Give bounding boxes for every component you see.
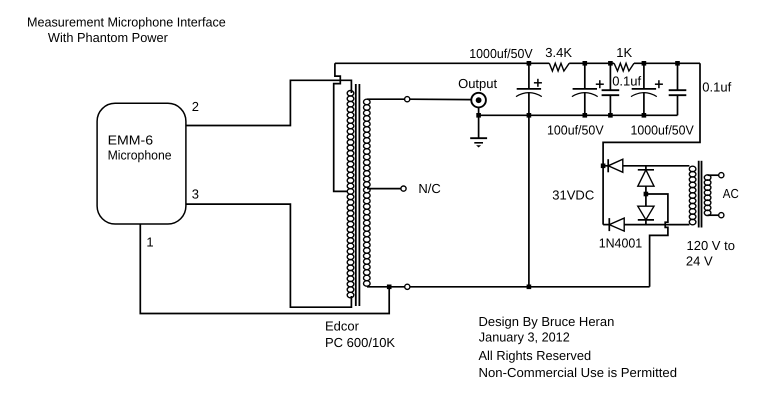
pin 3 label xyxy=(192,187,199,202)
svg-text:3.4K: 3.4K xyxy=(545,45,572,60)
terminal AC top xyxy=(719,173,724,178)
junction C1 bottom xyxy=(527,113,532,118)
diode D4 xyxy=(603,218,624,231)
wire AC primary bottom xyxy=(708,214,719,216)
microphone label xyxy=(108,133,172,163)
svg-text:1000uf/50V: 1000uf/50V xyxy=(469,46,533,61)
label Output xyxy=(458,76,497,91)
wire to output jack xyxy=(410,98,472,100)
junction C4 bottom xyxy=(642,113,647,118)
terminal secondary top xyxy=(405,97,410,102)
svg-text:31VDC: 31VDC xyxy=(552,187,594,202)
capacitor C3 0.1uf xyxy=(602,63,620,115)
diode D3 xyxy=(638,194,654,225)
label C1 1000uf/50V xyxy=(469,46,533,61)
label R1 3.4K xyxy=(545,45,572,60)
capacitor C2 100uf/50V xyxy=(572,63,604,115)
junction rail C1 xyxy=(527,61,532,66)
resistor R2 1K xyxy=(614,63,634,71)
svg-text:0.1uf: 0.1uf xyxy=(702,80,731,95)
junction ground cap bus xyxy=(527,285,532,290)
svg-text:1N4001: 1N4001 xyxy=(599,236,643,251)
transformer T1 core xyxy=(356,84,360,306)
wire phantom feed to center tap xyxy=(334,63,348,191)
pin 1 label xyxy=(146,234,153,249)
wire secondary center tap xyxy=(367,188,401,190)
junction output ground xyxy=(476,113,481,118)
svg-text:With Phantom Power: With Phantom Power xyxy=(48,30,169,45)
diode D2 xyxy=(638,166,654,194)
junction C3 bottom xyxy=(608,113,613,118)
junction ground pin1 xyxy=(387,285,392,290)
diode D1 xyxy=(603,159,623,172)
label AC xyxy=(723,186,739,201)
svg-text:N/C: N/C xyxy=(418,181,440,196)
wire ground stem xyxy=(478,115,480,138)
pin 2 label xyxy=(192,99,199,114)
wire cap bus riser xyxy=(528,115,530,286)
svg-text:1K: 1K xyxy=(616,45,632,60)
svg-text:0.1uf: 0.1uf xyxy=(612,73,641,88)
wire pin3 to primary bottom xyxy=(186,204,352,307)
label 31VDC xyxy=(552,187,594,202)
wire output to ground bus xyxy=(478,107,480,115)
terminal ground xyxy=(405,284,410,289)
wire pin2 to primary top xyxy=(186,80,352,125)
ground symbol xyxy=(470,138,487,147)
junction rail C3 xyxy=(608,61,613,66)
label R2 1K xyxy=(616,45,632,60)
capacitor C5 0.1uf xyxy=(669,63,687,115)
svg-text:All Rights Reserved: All Rights Reserved xyxy=(479,348,592,363)
svg-text:EMM-6: EMM-6 xyxy=(108,133,154,148)
junction C2 bottom xyxy=(583,113,588,118)
svg-text:Output: Output xyxy=(458,76,497,91)
svg-text:100uf/50V: 100uf/50V xyxy=(547,123,604,138)
svg-text:1000uf/50V: 1000uf/50V xyxy=(631,123,695,138)
label N/C xyxy=(418,181,440,196)
junction rail C5 xyxy=(675,61,680,66)
wire cap bottom bus xyxy=(479,114,678,116)
svg-text:1: 1 xyxy=(146,234,153,249)
resistor R1 3.4K xyxy=(549,63,569,71)
transformer T1 primary winding xyxy=(347,91,354,298)
svg-text:3: 3 xyxy=(192,187,199,202)
svg-text:Edcor: Edcor xyxy=(325,319,360,334)
wire secondary top lead xyxy=(367,98,405,100)
wire D1 to AC1 xyxy=(623,165,690,167)
svg-text:Non-Commercial Use is Permitte: Non-Commercial Use is Permitted xyxy=(479,365,678,380)
title line 1 xyxy=(27,15,226,30)
capacitor C1 1000uf/50V xyxy=(516,63,542,115)
wire DC minus to ground xyxy=(646,194,668,287)
terminal N/C xyxy=(401,186,406,191)
svg-text:Design By Bruce Heran: Design By Bruce Heran xyxy=(479,314,615,329)
junction rail C2 xyxy=(583,61,588,66)
svg-text:2: 2 xyxy=(192,99,199,114)
microphone EMM-6 body xyxy=(97,103,186,224)
junction DC minus xyxy=(644,192,649,197)
svg-text:24 V: 24 V xyxy=(686,254,713,269)
wire ground bus xyxy=(367,286,650,288)
transformer T2 core xyxy=(699,161,702,228)
credits xyxy=(479,314,678,380)
svg-text:Measurement Microphone Interfa: Measurement Microphone Interface xyxy=(27,15,226,30)
svg-text:PC 600/10K: PC 600/10K xyxy=(325,335,395,350)
capacitor C4 1000uf/50V xyxy=(631,63,663,115)
wire D4 to AC2 xyxy=(624,224,689,226)
wire top rail xyxy=(335,62,700,64)
output jack J1 xyxy=(471,93,486,108)
title line 2 xyxy=(48,30,169,45)
svg-text:January 3, 2012: January 3, 2012 xyxy=(479,330,570,345)
wire pin1 ground xyxy=(140,224,389,314)
wire rail to rectifier xyxy=(603,63,700,224)
svg-text:AC: AC xyxy=(723,186,739,201)
junction D1 cathode xyxy=(601,164,606,169)
label T2 voltage xyxy=(686,238,735,269)
transformer T2 secondary winding xyxy=(689,166,696,225)
svg-text:120 V to: 120 V to xyxy=(687,238,735,253)
label C3 0.1uf xyxy=(612,73,641,88)
wire AC primary top xyxy=(708,174,719,176)
label C5 0.1uf xyxy=(702,80,731,95)
transformer T1 label xyxy=(325,319,395,350)
label 1N4001 xyxy=(599,236,643,251)
transformer T2 primary winding xyxy=(704,175,711,216)
junction rail C4 xyxy=(642,61,647,66)
svg-text:Microphone: Microphone xyxy=(108,147,172,162)
label C2 100uf/50V xyxy=(547,123,604,138)
transformer T1 secondary winding xyxy=(364,99,371,286)
terminal AC bottom xyxy=(719,213,724,218)
label C4 1000uf/50V xyxy=(631,123,695,138)
